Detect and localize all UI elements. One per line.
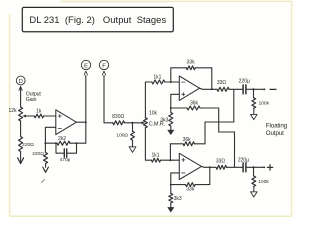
resistor R18 3k3	[169, 185, 173, 203]
wire 36k cross to bottom rail	[200, 108, 235, 167]
label 36k top	[190, 101, 199, 107]
wire 36k b to net B	[195, 143, 206, 145]
label 1k	[36, 109, 42, 115]
resistor R11 3k3	[169, 108, 173, 126]
wire U2 output	[200, 88, 217, 90]
svg-text:33Ω: 33Ω	[216, 159, 226, 165]
title box	[22, 7, 173, 31]
ground arrow R11	[168, 126, 174, 135]
ground triangle R14	[251, 108, 258, 119]
wire F down	[104, 76, 113, 123]
arrow into E	[84, 71, 87, 75]
wire 830 to node	[125, 122, 134, 124]
ground triangle R20	[251, 186, 258, 197]
svg-text:36k: 36k	[183, 137, 192, 143]
resistor R15 1k1	[152, 158, 161, 162]
plus terminal	[267, 165, 272, 170]
capacitor C2 220u	[243, 85, 246, 94]
wire pot top up	[145, 82, 151, 118]
terminal circle D	[16, 76, 25, 85]
label Floating Output	[266, 122, 288, 137]
svg-text:100k: 100k	[258, 179, 269, 185]
label 220R b	[32, 151, 44, 157]
label 33k top	[187, 60, 196, 66]
wire 1k to opamp	[44, 115, 56, 117]
label 220u top	[239, 79, 250, 85]
svg-text:470p: 470p	[60, 157, 71, 163]
scan speck	[42, 180, 45, 183]
label 33R top	[217, 80, 227, 86]
pot R1 12k	[19, 107, 23, 121]
label 100R	[116, 132, 128, 138]
svg-text:100k: 100k	[259, 100, 270, 106]
label 2k2	[58, 136, 66, 142]
svg-text:220Ω: 220Ω	[32, 151, 44, 157]
svg-text:36k: 36k	[190, 101, 199, 107]
resistor R2 1k	[34, 114, 43, 118]
resistor R5 220&#937;	[44, 143, 48, 163]
svg-text:33Ω: 33Ω	[217, 80, 227, 86]
svg-text:3k3: 3k3	[174, 196, 182, 202]
svg-text:DL 231 (Fig. 2) Output Sta: DL 231 (Fig. 2) Output Stages	[29, 14, 166, 25]
label 100k bottom	[258, 179, 269, 185]
op-amp U1	[56, 110, 77, 135]
label 1k1 bottom	[151, 153, 159, 159]
label 220R	[22, 142, 34, 148]
wire node to 2k2	[45, 142, 57, 144]
svg-text:3k3: 3k3	[160, 118, 168, 124]
svg-text:220Ω: 220Ω	[22, 142, 34, 148]
resistor R7 100&#937;	[131, 123, 135, 140]
label 100k top	[259, 100, 270, 106]
resistor R9 1k1	[152, 80, 165, 84]
wire pot bottom down	[145, 128, 151, 161]
svg-text:12k: 12k	[8, 108, 17, 114]
capacitor C3 220u	[243, 163, 246, 172]
resistor R3 220&#937;	[19, 137, 23, 152]
svg-text:10k: 10k	[149, 110, 158, 116]
resistor R13 33&#937;	[217, 87, 229, 91]
svg-text:220µ: 220µ	[238, 157, 249, 163]
wire 33R b to cap	[227, 166, 243, 168]
pot R8 10k CMR	[144, 118, 148, 128]
label 12k	[8, 108, 17, 114]
svg-text:E: E	[84, 63, 88, 69]
wire U3 minus	[170, 173, 180, 186]
op-amp U2	[179, 76, 199, 100]
resistor R14 100k	[252, 89, 256, 108]
wire cap to minus terminal	[247, 88, 266, 90]
svg-text:33k: 33k	[186, 187, 195, 193]
label 220u bottom	[238, 157, 249, 163]
svg-text:F: F	[102, 63, 106, 69]
minus terminal	[270, 88, 276, 90]
svg-text:220µ: 220µ	[239, 79, 250, 85]
resistor R19 33&#937;	[216, 165, 227, 169]
ground arrow R18	[168, 203, 174, 212]
label 36k bottom	[183, 137, 192, 143]
label 3k3 top	[160, 118, 168, 124]
page edge frame (pale yellow)	[10, 1, 292, 216]
resistor R4 2k2	[57, 141, 70, 145]
wire fb top left	[171, 68, 187, 82]
wire node to 33k b	[171, 184, 186, 186]
resistor R17 33k	[186, 183, 196, 187]
op-amp U3	[179, 153, 201, 179]
label CMR	[149, 122, 166, 128]
ground arrow left	[18, 152, 24, 164]
terminal circle F	[99, 60, 108, 69]
svg-text:830Ω: 830Ω	[112, 114, 124, 120]
wire U3 output	[202, 166, 217, 168]
wire 33k b to output	[195, 167, 210, 184]
svg-text:2k2: 2k2	[58, 136, 66, 142]
cross wire B junction	[233, 89, 235, 122]
ground arrow R5	[43, 164, 49, 173]
pot R1 wiper arrow	[22, 115, 34, 118]
terminal circle E	[81, 60, 90, 69]
svg-text:1k: 1k	[36, 109, 42, 115]
svg-text:D: D	[19, 79, 23, 85]
resistor R12 36k	[171, 106, 200, 110]
resistor R10 33k	[186, 66, 195, 70]
label 830R	[112, 114, 124, 120]
svg-text:33k: 33k	[187, 60, 196, 66]
svg-text:Output: Output	[266, 130, 284, 137]
label 1k1 top	[153, 74, 161, 80]
label 10k	[149, 110, 158, 116]
wire U1 output	[76, 121, 86, 123]
label 33k bottom	[186, 187, 195, 193]
label 470p	[60, 157, 71, 163]
wire 1k1 to U3	[161, 159, 180, 161]
resistor R20 100k	[252, 167, 256, 186]
capacitor C1 470p branch	[56, 143, 77, 157]
arrow into F	[102, 71, 105, 75]
resistor R16 36k	[170, 142, 194, 160]
label 33R bottom	[216, 159, 226, 165]
svg-text:1k1: 1k1	[151, 153, 159, 159]
vertical wire to E	[85, 76, 87, 144]
node U1 fb	[44, 142, 46, 144]
wire U2 plus	[170, 94, 180, 109]
wire cap to plus terminal	[247, 166, 266, 168]
wire 1k1 to U2	[165, 81, 180, 83]
wiper arrow CMR	[134, 121, 145, 124]
title text	[29, 14, 166, 25]
wire pot to R3	[20, 121, 22, 137]
svg-text:100Ω: 100Ω	[116, 132, 128, 138]
wire U1 minus input	[45, 127, 55, 143]
ground triangle R7	[129, 140, 136, 152]
resistor R6 830&#937;	[113, 121, 125, 125]
arrow into D	[19, 87, 22, 107]
svg-text:Floating: Floating	[266, 122, 288, 129]
wire fb top right	[195, 68, 212, 90]
wire 33R to cap	[229, 88, 243, 90]
svg-text:Gain: Gain	[26, 97, 37, 103]
svg-text:1k1: 1k1	[153, 74, 161, 80]
wire 2k2 to E line	[55, 142, 86, 144]
label 3k3 bottom	[174, 196, 182, 202]
label Output Gain	[26, 91, 42, 103]
cross wire B	[205, 122, 234, 144]
